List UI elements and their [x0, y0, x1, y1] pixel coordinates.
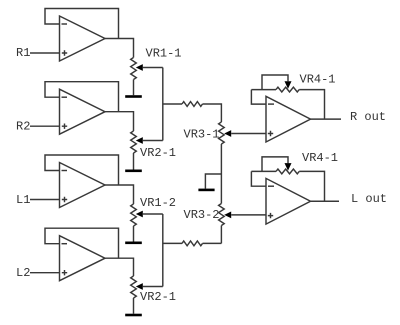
potentiometer VR3-1: [219, 122, 225, 144]
wire VR4-1 upper wiper loop: [262, 75, 288, 90]
wire R1 input: [30, 52, 60, 54]
wire VR4-1 lower left lead: [251, 170, 276, 172]
wire U4 output to lower VR2-1: [105, 258, 134, 276]
svg-text:L1: L1: [16, 193, 30, 207]
svg-text:R1: R1: [16, 46, 30, 60]
wire R mix to VR3-1 top: [203, 104, 222, 122]
wire VR3-2 wiper to U6 + input: [231, 214, 266, 216]
wire U6 -input feedback lead: [251, 171, 266, 186]
svg-text:VR4-1: VR4-1: [300, 73, 336, 87]
wire VR3-2 bottom to L mix: [220, 226, 222, 244]
op-amp U2 (R2 input buffer): [60, 89, 106, 134]
wiper arrow VR2-1 upper: [136, 137, 143, 144]
wiper arrow VR2-1 lower: [136, 283, 143, 290]
potentiometer VR2-1 (upper): [131, 131, 137, 153]
potentiometer VR1-2: [131, 204, 137, 226]
resistor R mix: [182, 102, 203, 107]
ground (below lower VR2-1): [125, 314, 142, 317]
wire L1 input: [30, 199, 60, 201]
wire right-channel wiper bus: [162, 68, 164, 141]
svg-text:L out: L out: [351, 192, 387, 206]
op-amp U3 (L1 input buffer): [60, 163, 106, 208]
wire lower VR2-1 wiper to bus: [143, 286, 163, 288]
ground (VR3 junction): [198, 189, 214, 192]
svg-text:R out: R out: [350, 110, 386, 124]
svg-text:VR4-1: VR4-1: [302, 151, 338, 165]
ground (below VR1-1): [125, 95, 142, 98]
wire VR4-1 lower right lead to output: [299, 171, 324, 201]
op-amp U6 (L output): [266, 178, 311, 224]
svg-text:VR1-1: VR1-1: [146, 47, 182, 61]
wiper arrow VR1-2: [136, 211, 143, 218]
wire U6 output L out: [311, 200, 340, 202]
svg-text:VR3-1: VR3-1: [184, 128, 220, 142]
wire U2 output to VR2-1: [105, 112, 134, 131]
wire L mix branch left lead: [163, 242, 182, 244]
wiper arrow VR4-1 upper: [285, 81, 292, 89]
wire junction ground tap: [205, 174, 221, 189]
wire U1 output to VR1-1: [105, 39, 134, 58]
wire VR1-2 bottom lead: [133, 226, 135, 242]
wiper arrow VR4-1 lower: [285, 163, 292, 171]
potentiometer VR4-1 (lower): [276, 169, 299, 174]
wire U4 feedback loop: [45, 228, 119, 258]
wire R mix branch left lead: [163, 103, 182, 105]
svg-text:VR2-1: VR2-1: [140, 290, 176, 304]
svg-text:R2: R2: [16, 120, 30, 134]
wire VR3-1 to VR3-2 junction: [220, 144, 222, 204]
wire U1 feedback loop: [45, 9, 119, 39]
wire U5 -input feedback lead: [251, 90, 266, 105]
wire VR2-1 wiper to bus: [143, 140, 163, 142]
wire VR3-1 wiper to U5 + input: [231, 133, 266, 135]
wire U2 feedback loop: [45, 82, 119, 112]
potentiometer VR2-1 (lower): [131, 276, 137, 298]
svg-text:VR1-2: VR1-2: [140, 196, 176, 210]
resistor L mix: [182, 241, 203, 246]
potentiometer VR1-1: [131, 58, 137, 80]
wiper arrow VR3-2: [224, 212, 231, 219]
wire VR1-2 wiper to bus: [143, 213, 163, 215]
wire L mix right lead: [203, 242, 222, 244]
wire VR1-1 wiper to bus: [143, 67, 163, 69]
wire L2 input: [30, 272, 60, 274]
wire left-channel wiper bus: [162, 214, 164, 287]
wire U3 output to VR1-2: [105, 185, 134, 204]
wire VR4-1 upper right lead to output: [299, 90, 324, 120]
svg-text:VR2-1: VR2-1: [140, 146, 176, 160]
svg-text:VR3-2: VR3-2: [184, 208, 220, 222]
wire U3 feedback loop: [45, 155, 119, 185]
potentiometer VR3-2: [219, 204, 225, 226]
wire U5 output R out: [311, 118, 342, 120]
wiper arrow VR3-1: [224, 130, 231, 137]
wire VR4-1 upper left lead: [251, 89, 276, 91]
wire VR2-1 bottom lead: [133, 153, 135, 170]
wiper arrow VR1-1: [136, 64, 143, 71]
op-amp U5 (R output): [266, 96, 311, 142]
wire VR4-1 lower wiper loop: [262, 157, 288, 172]
svg-text:L2: L2: [16, 266, 30, 280]
ground (below VR1-2): [125, 242, 142, 245]
wire R2 input: [30, 125, 60, 127]
op-amp U4 (L2 input buffer): [60, 236, 106, 281]
potentiometer VR4-1 (upper): [276, 87, 299, 92]
wire VR1-1 bottom lead: [133, 80, 135, 96]
op-amp U1 (R1 input buffer): [60, 16, 106, 61]
wire lower VR2-1 bottom lead: [133, 298, 135, 314]
ground (below upper VR2-1): [125, 170, 142, 173]
